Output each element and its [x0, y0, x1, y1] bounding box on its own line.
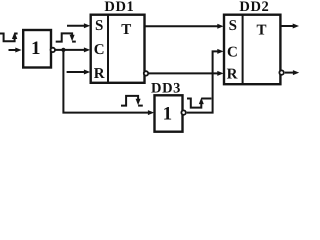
DD3 output bubble — [181, 110, 185, 114]
waveform annotation W4 (inverted pulse, rising-edge arrow, after DD3) — [187, 98, 211, 108]
DD2 input-column divider — [242, 15, 244, 85]
DD1 inverted output bubble — [144, 71, 148, 75]
wire input stub to inverter — [9, 48, 22, 53]
wire stub to DD1 S input — [67, 23, 90, 28]
svg-text:C: C — [94, 42, 105, 58]
wire DD2 Q output — [280, 24, 299, 29]
wire stub to DD1 R input — [67, 70, 91, 75]
node junction on C wire — [61, 48, 65, 52]
wire DD1 inverted output to DD2 R input — [149, 71, 224, 76]
svg-text:1: 1 — [163, 104, 173, 125]
svg-text:S: S — [95, 18, 103, 34]
inverter output bubble — [51, 48, 55, 52]
inverter gate (left box "1") — [23, 30, 51, 68]
svg-text:R: R — [94, 66, 105, 82]
svg-text:R: R — [227, 66, 238, 82]
wire DD2 inverted output — [285, 70, 299, 75]
waveform annotation W2 (pulse, falling-edge arrow, before DD1.C) — [56, 33, 76, 41]
wire trunk from junction down and right to DD3 input — [63, 50, 154, 115]
waveform annotation W1 (input pulse, rising-edge arrow) — [0, 32, 18, 41]
svg-text:DD1: DD1 — [104, 0, 134, 15]
svg-text:1: 1 — [31, 38, 41, 59]
svg-text:T: T — [121, 22, 131, 38]
waveform annotation W3 (pulse, falling-edge arrow, before DD3 input) — [121, 96, 143, 106]
svg-text:T: T — [256, 23, 266, 39]
flip-flop DD2 box — [224, 15, 280, 85]
svg-text:S: S — [229, 18, 237, 34]
wire DD3 output up to DD2 C input — [187, 49, 224, 113]
inverter gate DD3 box — [155, 95, 183, 131]
svg-text:DD2: DD2 — [239, 0, 269, 15]
wire DD1 Q output to DD2 S input — [145, 24, 224, 29]
flip-flop DD1 box — [91, 15, 145, 83]
svg-text:C: C — [227, 45, 238, 61]
DD1 input-column divider — [107, 15, 109, 83]
DD2 inverted output bubble — [279, 70, 283, 74]
wire inverter output to DD1 C input — [55, 47, 90, 52]
